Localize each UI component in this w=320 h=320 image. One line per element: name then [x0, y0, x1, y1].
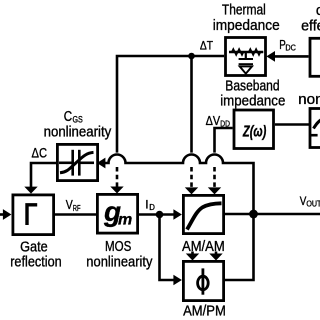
svg-text:ΔC: ΔC [32, 145, 48, 161]
label I_D [145, 197, 155, 212]
block DC effect (cut at right edge) [310, 38, 320, 76]
svg-text:Baseband: Baseband [225, 79, 279, 95]
wire feedback from V_OUT junction to C_GS box with hops [97, 155, 254, 215]
svg-text:ΔT: ΔT [200, 39, 214, 53]
block Thermal impedance [226, 38, 266, 76]
wire V_RF from Gamma to gm [54, 213, 97, 216]
wire delta-VDD from Z(w) down [215, 128, 233, 153]
svg-text:nonlinearity: nonlinearity [44, 125, 112, 141]
svg-text:AM/PM: AM/PM [183, 303, 226, 319]
svg-text:m: m [118, 212, 132, 229]
label DC effect fragment [301, 3, 320, 35]
block AM/AM [183, 195, 223, 233]
wire branch from I_D junction down to AM/PM input [160, 215, 182, 286]
block Baseband impedance Z(w) [234, 110, 274, 149]
label Thermal impedance [213, 3, 280, 34]
svg-text:D: D [149, 203, 155, 212]
svg-text:nonlinearity: nonlinearity [86, 255, 153, 271]
svg-text:impedance: impedance [213, 18, 280, 34]
svg-text:nonl: nonl [298, 92, 320, 108]
svg-text:Z(ω): Z(ω) [242, 124, 266, 141]
wire dashed delta-T into AM/AM [185, 167, 198, 194]
wire dashed delta-VDD into AM/AM [208, 167, 221, 194]
block MOS nonlinearity gm [97, 194, 137, 233]
wire AM/AM output to V_OUT [225, 213, 320, 216]
label V_RF [66, 198, 81, 213]
svg-text:reflection: reflection [10, 254, 62, 270]
svg-text:AM/AM: AM/AM [182, 239, 225, 255]
svg-text:DD: DD [220, 119, 230, 129]
block right nonlinearity (cut at right edge) [310, 109, 320, 148]
svg-text:I: I [145, 197, 148, 211]
block AM/PM phi [183, 261, 223, 300]
wire delta-T branch down to AM/AM [190, 56, 193, 153]
label C_GS nonlinearity [44, 109, 112, 141]
svg-text:C: C [64, 109, 72, 125]
wire delta-T bus horizontal with corner down at x117 [117, 56, 224, 153]
wire dashed delta-T into gm [110, 167, 123, 194]
wire delta-C from C_GS to Gamma top [24, 163, 56, 194]
svg-text:Thermal: Thermal [222, 3, 266, 19]
block Gate reflection (Gamma) [13, 195, 54, 235]
wire AM/PM output up to V_OUT junction [225, 214, 254, 280]
label delta-VDD [206, 114, 230, 129]
svg-text:RF: RF [73, 203, 81, 213]
svg-text:MOS: MOS [105, 239, 131, 255]
svg-text:Gate: Gate [20, 240, 48, 256]
svg-text:effe: effe [301, 18, 320, 34]
svg-text:DC: DC [285, 43, 296, 53]
wire P_DC from DC box to Thermal box [266, 51, 308, 62]
wire I_D from gm to AM/AM with junction [139, 209, 182, 220]
svg-text:GS: GS [73, 115, 83, 125]
label Gate reflection [10, 240, 62, 271]
svg-text:impedance: impedance [220, 94, 285, 110]
svg-text:OUT: OUT [306, 199, 320, 208]
svg-text:ΔV: ΔV [206, 114, 221, 128]
node junction at V_OUT [249, 210, 258, 219]
block C_GS nonlinearity [57, 144, 97, 180]
label Baseband impedance [220, 79, 285, 110]
svg-text:o: o [316, 3, 320, 19]
label P_DC [279, 38, 296, 53]
node junction on delta-T bus [188, 53, 195, 60]
wire Z(w) to right nonlinearity box [275, 123, 310, 126]
wire dashed stubs into AM/PM [186, 252, 223, 261]
label V_OUT [300, 196, 320, 208]
node junction on I_D line [156, 211, 164, 219]
wire RF input into Gate reflection [0, 209, 11, 220]
label MOS nonlinearity [86, 239, 153, 271]
